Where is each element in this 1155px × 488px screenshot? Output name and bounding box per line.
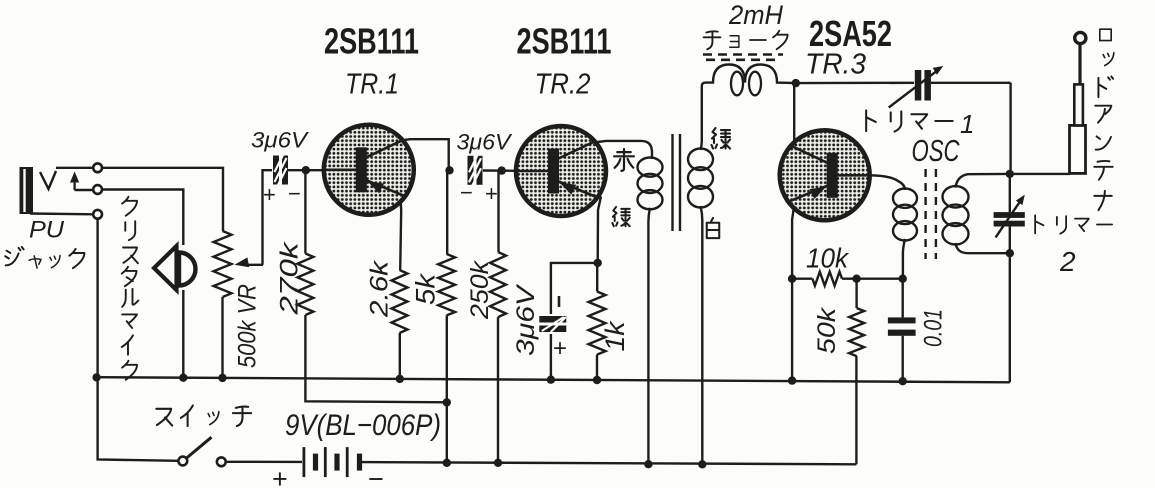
wire trimmer1 to tank top xyxy=(1009,83,1011,170)
wire battery rail right xyxy=(362,462,856,464)
svg-text:250k: 250k xyxy=(466,259,494,320)
node TR2 base junction xyxy=(498,166,506,174)
node C3-bus xyxy=(547,376,555,384)
wire jack sleeve xyxy=(30,212,93,215)
T2 tank bottom lead xyxy=(956,243,1010,253)
T2 feedback bottom lead xyxy=(903,239,905,279)
svg-text:1: 1 xyxy=(960,109,974,139)
VR wiper arrow xyxy=(245,264,263,266)
wire R2 to bus xyxy=(399,333,401,379)
wire R5 to bus xyxy=(596,355,598,380)
transistor TR2 2SB111 xyxy=(516,126,606,216)
svg-text:PU: PU xyxy=(29,217,65,244)
PU jack V mark xyxy=(40,171,56,189)
label jack katakana xyxy=(5,247,23,265)
wire tank top to antenna xyxy=(1010,173,1070,175)
node tank top xyxy=(1006,170,1014,178)
wire main bus xyxy=(97,377,1010,382)
svg-text:OSC: OSC xyxy=(912,133,960,168)
svg-text:50k: 50k xyxy=(813,306,841,354)
node left rail-bus xyxy=(92,373,100,381)
node choke-TR3 xyxy=(792,79,800,87)
svg-text:2: 2 xyxy=(1059,246,1076,277)
svg-text:3μ6V: 3μ6V xyxy=(457,130,513,155)
wire C1 to TR1 base xyxy=(288,169,324,171)
node TR2 emitter junction xyxy=(594,259,602,267)
label trimmer2 xyxy=(1035,215,1043,233)
svg-text:2SB111: 2SB111 xyxy=(324,21,419,62)
resistor R7 50k xyxy=(855,279,857,308)
node osc coil bottom junction xyxy=(899,275,907,283)
T2 feedback winding xyxy=(893,189,917,208)
wire R3 to rail xyxy=(446,315,448,462)
choke L1 2mH xyxy=(702,65,796,87)
T2 core dashes xyxy=(924,169,926,259)
switch SW xyxy=(178,457,187,466)
T1 secondary winding xyxy=(688,149,713,171)
wire emitter to C3 xyxy=(551,263,598,314)
T1 secondary top lead xyxy=(701,86,702,150)
svg-text:3μ6V: 3μ6V xyxy=(512,283,540,356)
battery BT1 9V xyxy=(303,447,306,477)
node T1 secondary-rail xyxy=(698,460,706,468)
jack tip arrow xyxy=(73,178,75,190)
jack contact 3 xyxy=(93,210,102,219)
choke core dashes xyxy=(703,53,783,56)
label trimmer1 xyxy=(866,110,876,131)
label midori green secondary xyxy=(712,128,731,149)
trimmer C5 trimmer-1 xyxy=(915,70,922,101)
wire contact2 to mic column xyxy=(102,190,183,246)
node T1 primary-rail xyxy=(644,460,652,468)
svg-text:1k: 1k xyxy=(600,320,630,352)
capacitor C1 3u6V xyxy=(273,156,279,185)
svg-text:3μ6V: 3μ6V xyxy=(251,128,310,153)
svg-text:270k: 270k xyxy=(276,241,304,316)
crystal mic xyxy=(154,246,177,290)
wire mic to bus xyxy=(182,290,184,378)
wire wiper up to cap xyxy=(263,170,273,265)
wire choke node to trimmer1 xyxy=(796,82,914,85)
trimmer C6 trimmer-2 xyxy=(1009,174,1011,212)
wire TR3 collector up xyxy=(793,83,795,145)
T1 primary bottom lead xyxy=(648,208,650,222)
svg-text:10k: 10k xyxy=(806,243,850,274)
svg-text:−: − xyxy=(368,464,384,488)
wire switch to battery xyxy=(226,461,302,464)
svg-text:TR.1: TR.1 xyxy=(345,69,399,101)
wire left rail xyxy=(98,219,179,461)
label aka red xyxy=(614,149,634,171)
wire TR1 collector xyxy=(402,139,448,170)
svg-text:9V(BL−006P): 9V(BL−006P) xyxy=(285,409,441,442)
wire jack tip to top contact xyxy=(56,167,93,169)
resistor R4 250k xyxy=(490,252,506,317)
label midori green primary xyxy=(612,207,629,226)
rod antenna xyxy=(1070,125,1086,173)
transistor TR3 2SA52 xyxy=(780,130,870,220)
node R6 right xyxy=(852,275,860,283)
svg-text:0.01: 0.01 xyxy=(920,309,948,347)
node C4-bus xyxy=(899,377,907,385)
wire contact1 to VR xyxy=(102,168,223,231)
label C3 minus xyxy=(558,296,561,307)
resistor R1 270k wire top xyxy=(304,170,306,253)
wire tank bottom to bus xyxy=(1009,253,1011,382)
label crystal mic katakana xyxy=(122,197,137,216)
wire TR2 collector xyxy=(598,141,642,142)
resistor R5 1k wire top xyxy=(596,263,598,292)
T1 secondary bottom lead xyxy=(701,206,703,464)
wire TR1 emitter down xyxy=(400,199,401,270)
wire emitter node to bus xyxy=(791,279,793,381)
svg-text:−: − xyxy=(288,181,301,206)
resistor R3 5k wire top xyxy=(446,170,448,254)
resistor R5 1k xyxy=(589,292,606,355)
jack contact 2 xyxy=(93,185,102,194)
svg-text:TR.2: TR.2 xyxy=(535,69,591,101)
T2 tank winding xyxy=(943,186,969,207)
wire jack ring xyxy=(75,189,94,191)
T1 primary top lead xyxy=(641,141,652,159)
wire TR3 emitter down xyxy=(792,208,794,279)
resistor R6 10k xyxy=(792,278,812,280)
svg-text:+: + xyxy=(485,181,498,206)
node TR1 base junction xyxy=(302,166,310,174)
label shiro white xyxy=(707,218,719,238)
wire 10k node to coil node xyxy=(857,278,903,280)
svg-text:2.6k: 2.6k xyxy=(366,259,394,318)
label switch katakana xyxy=(156,409,172,426)
wire C3 to bus xyxy=(550,334,552,380)
wire VR to bus xyxy=(221,297,223,378)
resistor R1 270k xyxy=(297,254,313,316)
label rod antenna vertical xyxy=(1100,29,1111,40)
svg-text:TR.3: TR.3 xyxy=(805,49,866,81)
node R3-rail xyxy=(443,459,451,467)
node VR-bus xyxy=(218,374,226,382)
node emitter-bus xyxy=(788,376,796,384)
jack contact 1 xyxy=(93,163,102,172)
T1 primary winding xyxy=(638,158,663,177)
svg-text:2mH: 2mH xyxy=(728,0,783,30)
potentiometer VR 500k xyxy=(214,231,232,297)
capacitor C4 0.01 xyxy=(902,279,904,318)
wire R4 to rail xyxy=(497,317,499,463)
node TR3 emitter junction xyxy=(788,275,796,283)
node R5-bus xyxy=(593,376,601,384)
svg-text:2SB111: 2SB111 xyxy=(517,21,612,62)
node R4-rail xyxy=(494,459,502,467)
transistor TR1 2SB111 xyxy=(324,125,414,215)
T1 core xyxy=(671,134,673,231)
svg-text:5k: 5k xyxy=(411,272,441,305)
resistor R2 2.6k xyxy=(392,270,408,333)
node tank bottom xyxy=(1006,249,1014,257)
node R1-R3 junction xyxy=(443,398,451,406)
T2 tank top lead xyxy=(956,174,1010,188)
PU jack plug body xyxy=(20,167,34,214)
wire battery rail to 50k xyxy=(855,356,857,464)
capacitor C2 3u6V xyxy=(468,156,474,185)
wire C2 to TR2 base xyxy=(483,169,516,172)
svg-text:500k VR: 500k VR xyxy=(234,284,262,368)
node TR1 collector junction xyxy=(445,166,453,174)
svg-text:+: + xyxy=(553,335,567,362)
node R2-bus xyxy=(396,375,404,383)
T1 primary to rail xyxy=(647,222,649,464)
svg-text:−: − xyxy=(460,180,473,205)
svg-text:+: + xyxy=(272,464,288,488)
resistor R3 5k xyxy=(438,254,455,315)
svg-text:+: + xyxy=(263,182,276,207)
label choke katakana xyxy=(704,31,721,49)
wire TR2 emitter down xyxy=(598,196,601,263)
node mic-bus xyxy=(179,374,187,382)
wire R1 bottom path xyxy=(305,315,446,402)
capacitor C3 3u6V bypass xyxy=(539,316,566,323)
resistor R4 250k wire top xyxy=(497,171,499,252)
T2 feedback top lead xyxy=(870,175,905,190)
